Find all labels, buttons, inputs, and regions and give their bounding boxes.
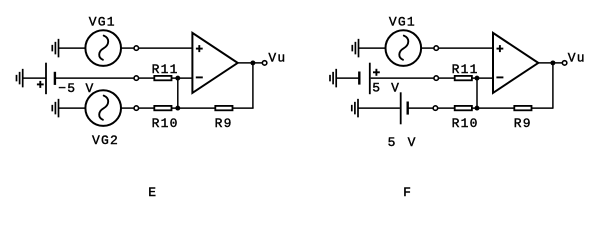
- svg-text:VG1: VG1: [389, 15, 416, 30]
- svg-text:Vu: Vu: [568, 50, 586, 65]
- svg-text:V: V: [391, 80, 400, 95]
- svg-text:−5: −5: [58, 81, 76, 96]
- svg-text:R10: R10: [452, 116, 479, 131]
- svg-text:E: E: [148, 185, 157, 200]
- svg-text:R10: R10: [152, 116, 179, 131]
- svg-text:V: V: [86, 81, 95, 96]
- svg-text:VG2: VG2: [92, 133, 119, 148]
- svg-text:R11: R11: [152, 62, 179, 77]
- svg-text:R9: R9: [514, 116, 532, 131]
- svg-text:F: F: [403, 185, 412, 200]
- svg-text:V: V: [408, 135, 417, 150]
- svg-text:5: 5: [372, 80, 381, 95]
- svg-text:R9: R9: [215, 116, 233, 131]
- svg-text:Vu: Vu: [268, 50, 286, 65]
- svg-text:R11: R11: [452, 62, 479, 77]
- svg-text:VG1: VG1: [89, 15, 116, 30]
- svg-text:5: 5: [388, 135, 397, 150]
